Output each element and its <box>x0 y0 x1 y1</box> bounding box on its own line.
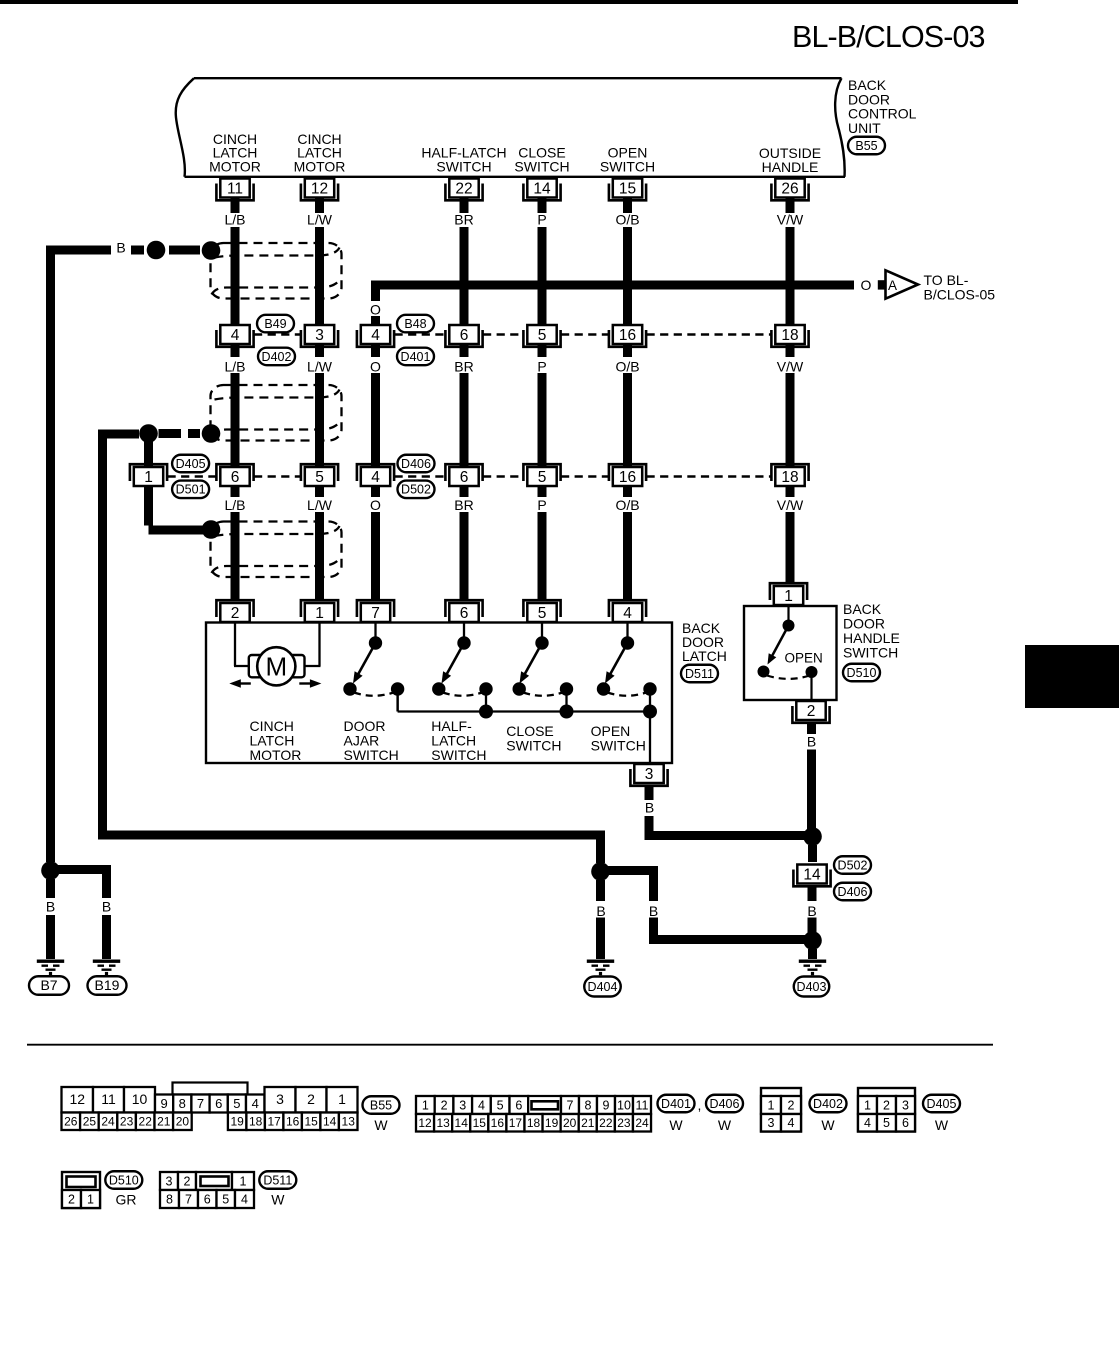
svg-text:11: 11 <box>101 1091 116 1107</box>
connector oval D501 <box>172 481 209 499</box>
svg-text:11: 11 <box>227 181 243 198</box>
svg-text:6: 6 <box>231 469 240 486</box>
pin 4 D511 <box>609 600 646 622</box>
wire O horizontal to BL-B/CLOS-05 <box>371 281 854 290</box>
ground oval D404 <box>584 977 621 997</box>
svg-text:4: 4 <box>623 605 632 622</box>
svg-text:8: 8 <box>585 1098 592 1112</box>
junction dot on shield 2 <box>202 424 221 443</box>
svg-text:5: 5 <box>315 469 324 486</box>
wire B second bus horizontal row2 <box>98 430 139 439</box>
svg-text:21: 21 <box>581 1116 595 1130</box>
svg-text:D406: D406 <box>838 885 868 899</box>
connector oval D502 <box>398 481 435 499</box>
wire V/W col7 from pin 26 <box>786 179 795 213</box>
svg-text:A: A <box>888 278 897 293</box>
svg-text:SWITCH: SWITCH <box>843 644 898 660</box>
svg-text:2: 2 <box>441 1098 448 1112</box>
svg-text:17: 17 <box>509 1116 523 1130</box>
connector oval D405 <box>172 455 209 473</box>
svg-text:4: 4 <box>231 327 240 344</box>
svg-text:LATCH: LATCH <box>682 648 727 664</box>
svg-text:20: 20 <box>563 1116 577 1130</box>
connector oval B55 <box>848 137 885 155</box>
svg-text:DOOR: DOOR <box>344 718 386 734</box>
svg-text:6: 6 <box>460 469 469 486</box>
wire O/B col6 from pin 15 <box>623 179 632 213</box>
svg-text:4: 4 <box>371 469 380 486</box>
shielded twisted pair symbol 1 <box>211 243 342 299</box>
pin 14 D502/D406 <box>793 865 830 887</box>
svg-text:6: 6 <box>515 1098 522 1112</box>
dash segment <box>169 246 200 255</box>
svg-text:1: 1 <box>87 1192 94 1206</box>
ground oval B7 <box>29 976 69 995</box>
connector face D401/D406 <box>416 1096 435 1114</box>
connector oval D510 <box>843 664 880 682</box>
pin 6 D405/D501 <box>216 464 253 486</box>
svg-text:3: 3 <box>459 1098 466 1112</box>
wire B ground bus top-left horizontal <box>46 246 111 255</box>
svg-text:2: 2 <box>184 1174 191 1188</box>
svg-text:B19: B19 <box>95 977 120 993</box>
connector face D402 <box>761 1088 801 1132</box>
svg-text:9: 9 <box>160 1096 167 1111</box>
wire L/B col1 from pin 11 <box>231 179 240 213</box>
pin 16 B48/D401 <box>609 325 646 347</box>
svg-text:3: 3 <box>315 327 324 344</box>
svg-text:12: 12 <box>69 1091 85 1107</box>
svg-text:7: 7 <box>567 1098 574 1112</box>
svg-text:OPEN: OPEN <box>785 651 823 666</box>
svg-text:D405: D405 <box>176 457 206 471</box>
svg-text:14: 14 <box>455 1116 469 1130</box>
svg-text:4: 4 <box>371 327 380 344</box>
pin 2 D511 <box>216 600 253 622</box>
svg-text:14: 14 <box>803 867 821 884</box>
svg-text:B55: B55 <box>855 139 877 153</box>
wire from shield drain through connector 1 <box>144 434 153 526</box>
svg-text:V/W: V/W <box>777 497 804 513</box>
cinch latch motor M <box>234 623 236 667</box>
close switch <box>513 622 574 712</box>
svg-text:15: 15 <box>304 1115 318 1129</box>
svg-text:10: 10 <box>132 1091 148 1107</box>
svg-text:5: 5 <box>233 1096 240 1111</box>
wire B from latch pin 3 <box>645 787 654 800</box>
connector face D511 <box>160 1172 178 1190</box>
connector oval B49 <box>257 315 294 333</box>
junction dot on shield 1 <box>202 241 221 260</box>
svg-text:12: 12 <box>418 1116 432 1130</box>
svg-text:P: P <box>537 212 546 228</box>
separator line <box>27 1044 993 1046</box>
pin 15 B55 <box>609 179 646 201</box>
pin 3 D511 <box>630 764 667 786</box>
connector oval B55 <box>363 1096 400 1114</box>
svg-text:,: , <box>698 1097 702 1113</box>
svg-text:1: 1 <box>784 588 793 605</box>
junction dot D404 branch <box>591 862 610 881</box>
pin 14 B55 <box>523 179 560 201</box>
svg-text:22: 22 <box>455 181 472 198</box>
connector oval D401 <box>397 348 434 366</box>
pin 2 D510 <box>792 701 829 723</box>
svg-text:V/W: V/W <box>777 359 804 375</box>
svg-text:D502: D502 <box>401 483 431 497</box>
svg-text:D403: D403 <box>797 980 827 994</box>
svg-text:L/B: L/B <box>224 359 245 375</box>
svg-text:21: 21 <box>157 1115 171 1129</box>
svg-text:1: 1 <box>315 605 324 622</box>
svg-text:O/B: O/B <box>615 212 639 228</box>
ground oval B19 <box>88 976 127 995</box>
svg-text:D404: D404 <box>588 980 618 994</box>
svg-text:16: 16 <box>619 327 636 344</box>
wire B left vertical 2 (to D404) <box>98 430 107 831</box>
ground D404 <box>587 960 614 976</box>
connector face D405 <box>858 1088 915 1132</box>
pin 6 B48/D401 <box>445 325 482 347</box>
svg-text:3: 3 <box>276 1091 284 1107</box>
back door latch box D511 <box>206 623 672 764</box>
bus junction dot <box>479 705 493 719</box>
svg-text:B48: B48 <box>404 317 426 331</box>
svg-text:5: 5 <box>538 605 547 622</box>
svg-text:B49: B49 <box>264 317 286 331</box>
svg-text:CLOSE: CLOSE <box>506 723 553 739</box>
svg-text:GR: GR <box>116 1192 137 1208</box>
pin 4 B49/D402 <box>216 325 253 347</box>
svg-text:4: 4 <box>788 1116 795 1130</box>
svg-text:1: 1 <box>338 1091 346 1107</box>
svg-text:B7: B7 <box>40 977 57 993</box>
open switch <box>597 622 657 712</box>
wire B branch to B19 <box>51 865 107 874</box>
svg-text:M: M <box>265 652 287 682</box>
svg-text:17: 17 <box>267 1115 281 1129</box>
svg-text:1: 1 <box>144 469 153 486</box>
svg-text:D405: D405 <box>927 1097 957 1111</box>
svg-text:14: 14 <box>323 1115 337 1129</box>
svg-text:26: 26 <box>64 1115 78 1129</box>
connector oval D402 <box>258 348 295 366</box>
dashed connector line row 1 <box>254 333 301 336</box>
svg-text:CINCH: CINCH <box>250 718 294 734</box>
svg-text:W: W <box>374 1117 388 1133</box>
wire bend down <box>596 831 605 864</box>
wire B branch toward D403 <box>601 866 654 875</box>
wire B long horizontal to D404 area <box>98 831 601 840</box>
svg-text:D510: D510 <box>847 666 877 680</box>
svg-text:1: 1 <box>768 1098 775 1112</box>
svg-text:15: 15 <box>619 181 636 198</box>
svg-text:D510: D510 <box>109 1173 139 1187</box>
svg-text:HALF-: HALF- <box>431 718 472 734</box>
svg-text:16: 16 <box>286 1115 300 1129</box>
svg-text:MOTOR: MOTOR <box>209 158 261 174</box>
svg-text:2: 2 <box>807 703 816 720</box>
pin 1 D405/D501 <box>130 464 167 486</box>
svg-text:SWITCH: SWITCH <box>344 747 399 763</box>
svg-text:MOTOR: MOTOR <box>250 747 302 763</box>
pin 5 B48/D401 <box>523 325 560 347</box>
svg-text:P: P <box>537 359 546 375</box>
pin 6 D406/D502 <box>445 464 482 486</box>
switch common bus <box>396 689 398 712</box>
connector oval D406 <box>834 883 871 901</box>
svg-text:7: 7 <box>371 605 380 622</box>
door ajar switch <box>343 622 404 712</box>
pin 1 D510 <box>770 583 807 605</box>
bus junction dot <box>560 705 574 719</box>
svg-text:6: 6 <box>460 605 469 622</box>
connector oval D406 <box>398 455 435 473</box>
svg-text:23: 23 <box>120 1115 134 1129</box>
ground B19 <box>93 960 120 976</box>
pin 4 D406/D502 <box>357 464 394 486</box>
svg-text:SWITCH: SWITCH <box>514 158 569 174</box>
svg-text:MOTOR: MOTOR <box>294 158 346 174</box>
svg-text:12: 12 <box>311 181 328 198</box>
svg-text:5: 5 <box>883 1116 890 1130</box>
svg-text:L/W: L/W <box>307 212 333 228</box>
svg-text:3: 3 <box>902 1098 909 1112</box>
svg-text:D501: D501 <box>176 483 206 497</box>
svg-text:22: 22 <box>139 1115 153 1129</box>
svg-text:B: B <box>807 733 816 749</box>
back door control unit box B55 <box>176 78 845 177</box>
svg-text:14: 14 <box>533 181 551 198</box>
svg-text:13: 13 <box>342 1115 356 1129</box>
pin 5 D405/D501 <box>301 464 338 486</box>
connector face B55 <box>173 1083 248 1095</box>
pin 11 B55 <box>216 179 253 201</box>
wire B left vertical (to B7) <box>46 246 55 863</box>
svg-text:16: 16 <box>491 1116 505 1130</box>
pin 26 B55 <box>771 179 808 201</box>
svg-text:18: 18 <box>781 327 798 344</box>
connector oval D402 <box>810 1095 847 1113</box>
svg-text:B: B <box>102 899 111 915</box>
ground D403 <box>799 960 826 976</box>
svg-text:1: 1 <box>422 1098 429 1112</box>
svg-text:6: 6 <box>460 327 469 344</box>
handle switch contacts <box>787 606 789 620</box>
connector face D510 <box>62 1172 100 1208</box>
wire P col5 from pin 14 <box>538 179 547 213</box>
svg-text:LATCH: LATCH <box>250 733 295 749</box>
svg-text:D401: D401 <box>401 350 431 364</box>
svg-text:B/CLOS-05: B/CLOS-05 <box>924 287 996 303</box>
svg-text:19: 19 <box>230 1115 244 1129</box>
svg-text:8: 8 <box>166 1192 173 1206</box>
svg-text:B: B <box>46 899 55 915</box>
svg-text:P: P <box>537 497 546 513</box>
svg-text:BR: BR <box>454 359 473 375</box>
svg-text:19: 19 <box>545 1116 559 1130</box>
pin 7 D511 <box>357 600 394 622</box>
pin 3 B49/D402 <box>301 325 338 347</box>
pin 1 D511 <box>301 600 338 622</box>
pin 5 D511 <box>523 600 560 622</box>
svg-text:13: 13 <box>436 1116 450 1130</box>
wire L/W col2 from pin 12 <box>315 179 324 213</box>
svg-text:BL-B/CLOS-03: BL-B/CLOS-03 <box>792 20 985 54</box>
svg-text:4: 4 <box>252 1096 259 1111</box>
junction dot <box>147 241 166 260</box>
svg-text:W: W <box>718 1117 732 1133</box>
svg-text:D402: D402 <box>262 350 292 364</box>
back door handle switch box D510 <box>744 606 837 700</box>
connector oval D511 <box>259 1171 296 1189</box>
svg-text:SWITCH: SWITCH <box>436 158 491 174</box>
svg-text:L/W: L/W <box>307 497 333 513</box>
wire BR col4 from pin 22 <box>460 179 469 213</box>
connector oval D405 <box>923 1095 960 1113</box>
svg-text:4: 4 <box>864 1116 871 1130</box>
svg-text:18: 18 <box>249 1115 263 1129</box>
svg-text:2: 2 <box>307 1091 315 1107</box>
svg-text:L/B: L/B <box>224 212 245 228</box>
junction dot at D403 <box>803 931 822 950</box>
svg-text:L/B: L/B <box>224 497 245 513</box>
svg-text:15: 15 <box>473 1116 487 1130</box>
svg-text:B: B <box>116 240 125 256</box>
svg-text:AJAR: AJAR <box>344 733 380 749</box>
ground oval D403 <box>794 977 830 997</box>
svg-text:2: 2 <box>788 1098 795 1112</box>
svg-text:L/W: L/W <box>307 359 333 375</box>
dash segment <box>131 246 144 255</box>
dash segment <box>159 429 182 438</box>
svg-text:9: 9 <box>603 1098 610 1112</box>
svg-text:O/B: O/B <box>615 359 639 375</box>
wire below connector 14 <box>808 886 817 901</box>
svg-text:D402: D402 <box>813 1097 843 1111</box>
pin 12 B55 <box>301 179 338 201</box>
svg-text:LATCH: LATCH <box>431 733 476 749</box>
junction dot on shield 3 <box>202 520 221 539</box>
junction dot shield2 drain <box>139 424 158 443</box>
svg-text:D511: D511 <box>685 667 714 681</box>
motor direction arrows <box>238 682 251 684</box>
svg-text:HANDLE: HANDLE <box>762 159 819 175</box>
pin 18 B48/D401 <box>771 325 808 347</box>
connector arrow A to BL-B/CLOS-05 <box>878 280 885 289</box>
svg-text:24: 24 <box>635 1116 649 1130</box>
shielded twisted pair symbol 3 <box>211 522 342 578</box>
svg-text:B55: B55 <box>370 1098 392 1112</box>
svg-text:B: B <box>649 903 658 919</box>
svg-text:6: 6 <box>902 1116 909 1130</box>
svg-text:D502: D502 <box>838 858 868 872</box>
connector oval D502 <box>834 856 871 874</box>
connector oval D406 <box>706 1095 743 1113</box>
svg-text:5: 5 <box>497 1098 504 1112</box>
svg-text:4: 4 <box>241 1192 248 1206</box>
svg-text:O: O <box>370 359 381 375</box>
ground B7 <box>37 960 64 976</box>
junction dot B <box>803 827 822 846</box>
wire O col3 <box>371 283 380 301</box>
junction dot B7 branch <box>41 861 60 880</box>
dash segment <box>188 429 200 438</box>
svg-text:7: 7 <box>185 1192 192 1206</box>
half-latch switch <box>432 622 493 712</box>
svg-text:SWITCH: SWITCH <box>600 158 655 174</box>
pin 18 D406/D502 <box>771 464 808 486</box>
svg-text:D406: D406 <box>710 1097 740 1111</box>
pin 4 B48/D401 <box>357 325 394 347</box>
svg-text:D511: D511 <box>263 1173 292 1187</box>
connector oval D511 <box>681 665 718 683</box>
svg-text:2: 2 <box>883 1098 890 1112</box>
connector oval D510 <box>105 1171 142 1189</box>
svg-text:5: 5 <box>222 1192 229 1206</box>
shielded twisted pair symbol 2 <box>211 385 342 441</box>
svg-text:23: 23 <box>617 1116 631 1130</box>
svg-text:26: 26 <box>781 181 798 198</box>
wire bus to pin 3 <box>649 712 651 763</box>
svg-text:SWITCH: SWITCH <box>431 747 486 763</box>
svg-text:W: W <box>821 1117 835 1133</box>
svg-text:W: W <box>935 1117 949 1133</box>
svg-text:UNIT: UNIT <box>848 120 881 136</box>
svg-text:2: 2 <box>231 605 240 622</box>
right edge index tab <box>1025 645 1119 708</box>
svg-text:11: 11 <box>636 1098 649 1112</box>
top black bar <box>0 0 1018 4</box>
svg-text:B: B <box>645 800 654 816</box>
svg-text:6: 6 <box>204 1192 211 1206</box>
connector oval D401 <box>658 1095 695 1113</box>
svg-text:B: B <box>807 903 816 919</box>
connector oval B48 <box>397 315 434 333</box>
svg-text:10: 10 <box>617 1098 631 1112</box>
svg-text:5: 5 <box>538 327 547 344</box>
svg-text:O/B: O/B <box>615 497 639 513</box>
svg-text:8: 8 <box>179 1096 186 1111</box>
pin 5 D406/D502 <box>523 464 560 486</box>
svg-text:25: 25 <box>83 1115 97 1129</box>
svg-text:20: 20 <box>176 1115 190 1129</box>
svg-text:3: 3 <box>166 1174 173 1188</box>
svg-text:22: 22 <box>599 1116 613 1130</box>
svg-text:SWITCH: SWITCH <box>506 737 561 753</box>
svg-text:B: B <box>596 903 605 919</box>
svg-text:O: O <box>861 277 872 293</box>
svg-text:W: W <box>271 1192 285 1208</box>
svg-text:7: 7 <box>197 1096 204 1111</box>
svg-text:1: 1 <box>240 1174 247 1188</box>
svg-text:O: O <box>370 497 381 513</box>
pin 16 D406/D502 <box>609 464 646 486</box>
wire B from handle switch pin 2 <box>807 724 816 734</box>
svg-text:SWITCH: SWITCH <box>591 737 646 753</box>
svg-text:OPEN: OPEN <box>591 723 631 739</box>
svg-text:3: 3 <box>768 1116 775 1130</box>
svg-text:5: 5 <box>538 469 547 486</box>
svg-text:BR: BR <box>454 212 473 228</box>
svg-text:18: 18 <box>527 1116 541 1130</box>
svg-text:O: O <box>370 301 381 317</box>
svg-text:W: W <box>669 1117 683 1133</box>
svg-text:2: 2 <box>68 1192 75 1206</box>
svg-text:D401: D401 <box>661 1097 691 1111</box>
svg-text:V/W: V/W <box>777 212 804 228</box>
dashed connector line row 2 <box>168 475 217 478</box>
